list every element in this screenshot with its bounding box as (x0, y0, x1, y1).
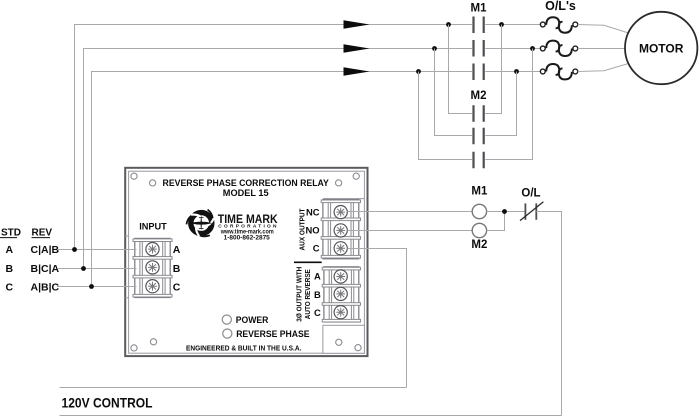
arrow L1 (344, 20, 370, 29)
node L2 left tap (432, 46, 437, 51)
wire row A to input (57, 249, 136, 251)
panel notch around AUX block (323, 198, 364, 200)
svg-text:A: A (314, 271, 321, 282)
logo Time Mark clock pointer (190, 215, 213, 231)
svg-text:C: C (313, 243, 320, 254)
screw hole top-right (353, 173, 359, 179)
wire M2 coil joins M1 (487, 212, 505, 231)
svg-text:B: B (6, 263, 14, 275)
node row A (72, 247, 77, 252)
screw hole top-left (131, 173, 137, 179)
svg-text:M1: M1 (471, 3, 488, 15)
svg-text:M2: M2 (471, 239, 487, 251)
node coils junction (502, 209, 507, 214)
svg-text:POWER: POWER (236, 315, 269, 326)
wire AUX NO to M2 coil (347, 230, 472, 232)
svg-text:A: A (6, 244, 14, 256)
overload heater OL2 (540, 41, 572, 56)
relay U1 Model 15 outer case (125, 168, 367, 356)
svg-text:3Ø OUTPUT WITH: 3Ø OUTPUT WITH (297, 267, 304, 322)
svg-text:REVERSE PHASE: REVERSE PHASE (236, 329, 310, 340)
screw hole bottom-right corner (355, 345, 361, 351)
node row C (89, 284, 94, 289)
terminal block INPUT (133, 238, 172, 297)
node L1 right tap (499, 22, 504, 27)
wire AUX NC to M1 coil (347, 211, 472, 213)
svg-text:MOTOR: MOTOR (639, 42, 684, 56)
wire row B to input (57, 268, 136, 270)
screw hole title-right (336, 180, 342, 186)
svg-text:B|C|A: B|C|A (31, 263, 60, 275)
panel plate bottom-right (323, 325, 365, 353)
wire AUX C to control rail (347, 249, 406, 388)
motor (625, 12, 697, 84)
svg-text:C|A|B: C|A|B (31, 244, 60, 256)
wire M2 crossover inner (L1) (449, 25, 502, 114)
120V control neutral rail (60, 415, 562, 417)
screw hole bottom-left inner (150, 339, 156, 345)
arrow L3 (344, 67, 370, 76)
svg-text:C: C (173, 282, 181, 294)
wire phase L2 top (84, 49, 541, 269)
svg-text:A: A (173, 244, 181, 256)
wire OL3 to motor (578, 63, 631, 72)
svg-text:NO: NO (305, 225, 319, 236)
node L1 left tap (446, 22, 451, 27)
wire M1 coil to OL contact (487, 211, 525, 213)
120V control hot rail (60, 387, 407, 389)
svg-text:B: B (314, 289, 321, 300)
svg-text:INPUT: INPUT (139, 221, 167, 231)
contactor M1 contacts (474, 17, 484, 81)
svg-text:O/L: O/L (521, 188, 540, 200)
divider line outputs (294, 261, 322, 263)
wire phase L3 top (92, 72, 541, 287)
indicator REVERSE PHASE led (223, 329, 232, 338)
overload heater OL3 (540, 64, 572, 79)
svg-text:1-800-862-2875: 1-800-862-2875 (224, 235, 271, 242)
arrow L2 (344, 44, 370, 53)
node row B (81, 266, 86, 271)
svg-text:ENGINEERED & BUILT IN THE U.S.: ENGINEERED & BUILT IN THE U.S.A. (186, 343, 302, 352)
svg-text:REVERSE PHASE CORRECTION RELAY: REVERSE PHASE CORRECTION RELAY (163, 178, 329, 188)
wire stub input B through border (122, 268, 137, 270)
svg-text:120V CONTROL: 120V CONTROL (62, 395, 153, 411)
svg-text:STD: STD (1, 228, 21, 239)
wire OL contact to right rail (536, 212, 561, 416)
indicator POWER led (222, 315, 231, 324)
coil M2 (472, 223, 486, 237)
wire stub input A through border (122, 249, 137, 251)
overload heater OL1 (540, 17, 572, 32)
svg-text:C: C (314, 307, 321, 318)
table underlines (0, 237, 50, 239)
OL contact (520, 202, 543, 221)
svg-text:A|B|C: A|B|C (31, 282, 60, 294)
terminal circle OL3 right (573, 69, 578, 74)
svg-text:MODEL 15: MODEL 15 (223, 188, 269, 198)
terminal block AUX OUTPUT (321, 200, 360, 259)
wire phase L1 top (75, 25, 541, 250)
coil M1 (472, 204, 486, 218)
panel notch input left (125, 236, 128, 298)
screw hole bottom-left corner (131, 345, 137, 351)
screw hole bottom-right inner (336, 339, 342, 345)
screw hole title-left (150, 180, 156, 186)
wire M2 crossover outer (L3 to L2) (419, 49, 533, 160)
logo Time Mark swirl (186, 210, 214, 238)
svg-text:AUTO REVERSE: AUTO REVERSE (305, 269, 312, 319)
wire M2 crossover middle (L2 to L3) (435, 49, 517, 136)
terminal circle OL2 right (573, 46, 578, 51)
wire row C to input (57, 286, 136, 288)
relay U1 front panel inner border (129, 171, 365, 353)
terminal circle OL1 right (573, 22, 578, 27)
svg-text:C: C (6, 282, 14, 294)
svg-text:NC: NC (306, 206, 320, 217)
node L2 right tap (530, 46, 535, 51)
svg-text:O/L's: O/L's (545, 0, 576, 13)
terminal block 3-phase output (322, 267, 360, 322)
table STD/REV (1, 228, 60, 294)
contactor M2 contacts (474, 105, 484, 168)
node L3 left tap (416, 69, 421, 74)
wire OL1 to motor (578, 25, 631, 34)
svg-text:B: B (173, 263, 181, 275)
node L3 right tap (514, 69, 519, 74)
wire stub input C through border (122, 286, 137, 288)
svg-text:REV: REV (32, 228, 53, 239)
wire OL2 to motor (578, 48, 625, 50)
svg-text:M2: M2 (471, 90, 487, 102)
svg-text:M1: M1 (471, 186, 488, 198)
